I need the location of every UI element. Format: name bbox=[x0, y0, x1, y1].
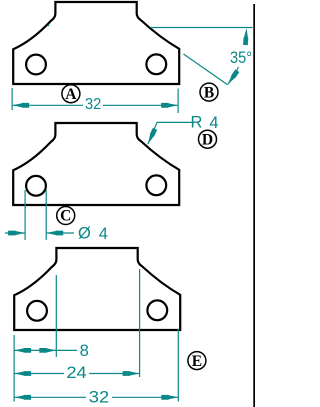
diameter dimension line right part bbox=[46, 232, 74, 234]
diameter dimension extension line left bbox=[25, 190, 26, 240]
dimension 8 arrow right bbox=[39, 348, 56, 353]
diameter arrow right outside bbox=[46, 231, 63, 236]
dimension A arrow right bbox=[161, 103, 178, 108]
svg-text:Ø: Ø bbox=[78, 225, 91, 243]
svg-text:D: D bbox=[202, 131, 213, 148]
part outline view 2 bbox=[13, 123, 179, 205]
svg-text:R: R bbox=[190, 114, 202, 132]
dimension 8 line bbox=[14, 349, 77, 351]
svg-text:24: 24 bbox=[66, 364, 86, 382]
hole left view 2 bbox=[26, 176, 46, 196]
svg-text:C: C bbox=[60, 208, 71, 225]
dimension 32 arrow left bbox=[14, 395, 31, 400]
svg-text:4: 4 bbox=[209, 114, 218, 132]
svg-text:B: B bbox=[204, 84, 214, 101]
label circle B bbox=[200, 83, 218, 101]
hole right view 3 bbox=[147, 300, 167, 320]
dimension E extension line 32 bbox=[178, 329, 179, 402]
angular dimension slant line bbox=[184, 54, 228, 85]
dimension E extension line left bbox=[14, 335, 15, 402]
border frame right edge bbox=[253, 4, 255, 407]
dimension A line bbox=[12, 104, 178, 106]
hole left view 1 bbox=[26, 55, 46, 75]
part outline view 1 bbox=[13, 2, 179, 84]
hole right view 1 bbox=[146, 54, 166, 74]
hole right view 2 bbox=[146, 175, 166, 195]
dimension A extension line right bbox=[178, 89, 179, 114]
diameter arrow left outside bbox=[8, 231, 25, 236]
angular dimension arc bbox=[228, 67, 239, 84]
diameter dimension line left part bbox=[5, 232, 25, 234]
svg-text:8: 8 bbox=[80, 342, 89, 360]
dimension 24 arrow left bbox=[14, 371, 31, 376]
label circle C bbox=[57, 207, 75, 225]
hole left view 3 bbox=[27, 301, 47, 321]
dimension 32 line bottom bbox=[14, 396, 178, 398]
stray teal dot on view 1 slant bbox=[48, 25, 50, 27]
dimension 8 arrow left bbox=[14, 348, 31, 353]
angular dimension reference line bbox=[150, 27, 253, 29]
svg-text:32: 32 bbox=[85, 96, 101, 113]
diameter dimension extension line right bbox=[46, 190, 47, 240]
label circle A bbox=[62, 85, 80, 103]
radius leader line bbox=[148, 122, 194, 144]
dimension E extension line 24 bbox=[139, 269, 140, 377]
svg-text:E: E bbox=[192, 353, 202, 370]
svg-text:32: 32 bbox=[89, 388, 109, 406]
svg-text:35°: 35° bbox=[230, 49, 252, 67]
dimension A extension line left bbox=[12, 88, 13, 110]
part outline view 3 bbox=[14, 248, 180, 330]
angular dimension arrow top bbox=[243, 28, 249, 45]
angular dimension arrow bottom bbox=[226, 69, 240, 86]
dimension 24 line bbox=[14, 373, 140, 375]
svg-text:4: 4 bbox=[99, 225, 108, 243]
dimension 32 arrow right bbox=[161, 395, 178, 400]
svg-text:A: A bbox=[65, 86, 77, 103]
dimension E extension line 8 bbox=[56, 275, 57, 357]
label circle E bbox=[188, 352, 206, 370]
dimension 24 arrow right bbox=[123, 371, 140, 376]
radius leader arrow bbox=[146, 128, 158, 145]
label circle D bbox=[199, 130, 217, 148]
dimension A arrow left bbox=[12, 103, 29, 108]
